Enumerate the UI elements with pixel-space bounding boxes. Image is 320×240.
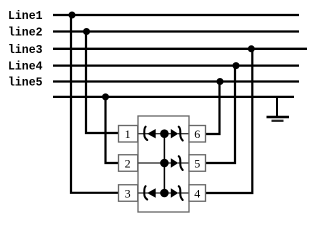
svg-text:Line1: Line1 <box>8 10 43 23</box>
svg-text:Line4: Line4 <box>8 61 43 74</box>
svg-text:5: 5 <box>194 156 200 170</box>
svg-text:2: 2 <box>125 156 131 170</box>
svg-text:1: 1 <box>125 127 131 141</box>
svg-text:line2: line2 <box>8 27 43 40</box>
svg-text:line3: line3 <box>8 44 43 57</box>
svg-text:4: 4 <box>194 186 200 200</box>
svg-text:6: 6 <box>194 127 200 141</box>
svg-text:3: 3 <box>125 186 131 200</box>
svg-text:line5: line5 <box>8 77 43 90</box>
